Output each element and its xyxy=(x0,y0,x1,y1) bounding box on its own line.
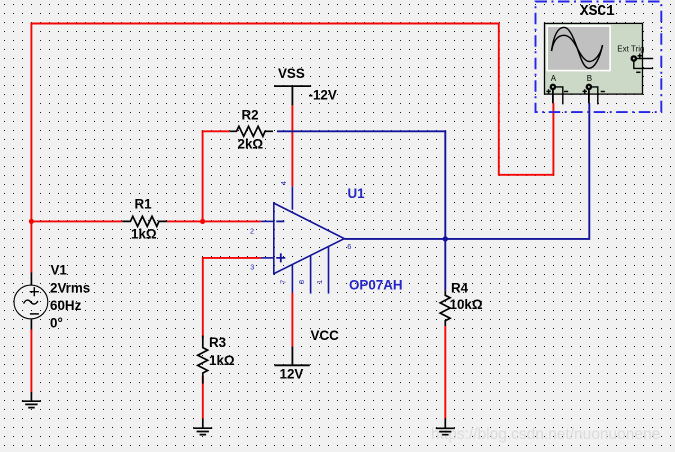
svg-text:R4: R4 xyxy=(451,281,469,296)
svg-text:12V: 12V xyxy=(280,367,304,382)
svg-text:10kΩ: 10kΩ xyxy=(450,297,483,312)
svg-text:R1: R1 xyxy=(135,197,153,212)
svg-text:1kΩ: 1kΩ xyxy=(131,227,157,242)
svg-text:VCC: VCC xyxy=(311,328,340,343)
svg-text:2Vrms: 2Vrms xyxy=(50,281,90,296)
svg-text:7: 7 xyxy=(279,280,288,284)
svg-text:8: 8 xyxy=(297,280,306,284)
svg-text:1: 1 xyxy=(315,280,324,284)
svg-text:2: 2 xyxy=(250,226,254,235)
svg-text:B: B xyxy=(587,74,592,83)
svg-text:6: 6 xyxy=(347,242,351,251)
svg-text:60Hz: 60Hz xyxy=(50,298,82,313)
svg-text:VSS: VSS xyxy=(278,66,305,81)
svg-text:V1: V1 xyxy=(51,263,68,278)
svg-text:U1: U1 xyxy=(348,186,366,201)
svg-text:-12V: -12V xyxy=(309,87,337,102)
svg-text:1kΩ: 1kΩ xyxy=(209,353,235,368)
svg-text:XSC1: XSC1 xyxy=(580,4,615,20)
svg-text:OP07AH: OP07AH xyxy=(349,277,403,292)
svg-text:R2: R2 xyxy=(242,107,259,122)
svg-text:0°: 0° xyxy=(50,316,63,331)
svg-text:R3: R3 xyxy=(209,335,226,350)
svg-text:Ext Trig: Ext Trig xyxy=(617,44,644,53)
svg-text:4: 4 xyxy=(279,181,288,185)
svg-text:A: A xyxy=(551,74,557,83)
svg-text:3: 3 xyxy=(250,262,254,271)
svg-text:2kΩ: 2kΩ xyxy=(238,137,264,152)
svg-text:https://blog.csdn.net/nuonuone: https://blog.csdn.net/nuonuonene xyxy=(431,426,660,443)
